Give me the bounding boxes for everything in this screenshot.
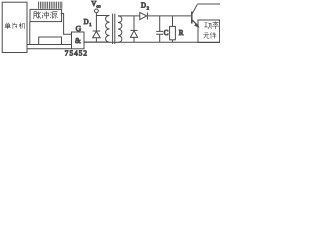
box pulse source (脉冲源) [30,9,62,21]
率 [212,21,219,29]
svg-text:G: G [76,24,82,33]
svg-text:75452: 75452 [65,50,88,58]
wire Vcc node to primary top [96,15,109,17]
wire pulse-source to gate upper input [61,14,72,35]
冲 [42,11,49,19]
transformer core [113,14,115,44]
元 [203,33,209,38]
bottom rail [84,41,220,43]
单 [5,23,11,29]
pulse-train hatching above box [39,2,62,9]
svg-text:R: R [179,29,184,37]
wire pulse signal with square pulse symbol [27,22,72,45]
capacitor C [159,16,161,32]
片 [13,23,17,29]
text 单片机 (hand-drawn hanzi strokes) [5,23,25,29]
svg-text:&: & [75,36,81,45]
机 [19,23,25,29]
series diode D2 [140,12,147,19]
gate output wire to primary bottom [84,41,110,43]
svg-text:D: D [84,19,89,26]
secondary top wire [118,15,191,17]
secondary winding [118,16,122,43]
svg-text:D: D [141,3,146,10]
resistor R [172,16,174,27]
功 [204,23,211,29]
shunt diode D3 [133,16,135,31]
collector wire to right edge [197,3,220,5]
svg-text:cc: cc [96,4,100,9]
svg-text:1: 1 [89,22,91,27]
svg-text:2: 2 [147,6,149,11]
transistor Q1 [191,12,193,24]
源 [50,12,57,19]
AND gate U1 (75452) [72,32,85,49]
text 脉冲源 [33,11,57,19]
脉 [33,11,40,18]
box power element (功率元件) [198,20,220,43]
box MCU (单片机) [2,2,27,52]
svg-text:C: C [164,29,169,37]
wire MCU to gate lower input [27,48,72,50]
diode D1 (flyback across primary) [95,16,97,32]
件 [210,32,216,38]
pulse transformer T1: primary winding [106,16,110,43]
